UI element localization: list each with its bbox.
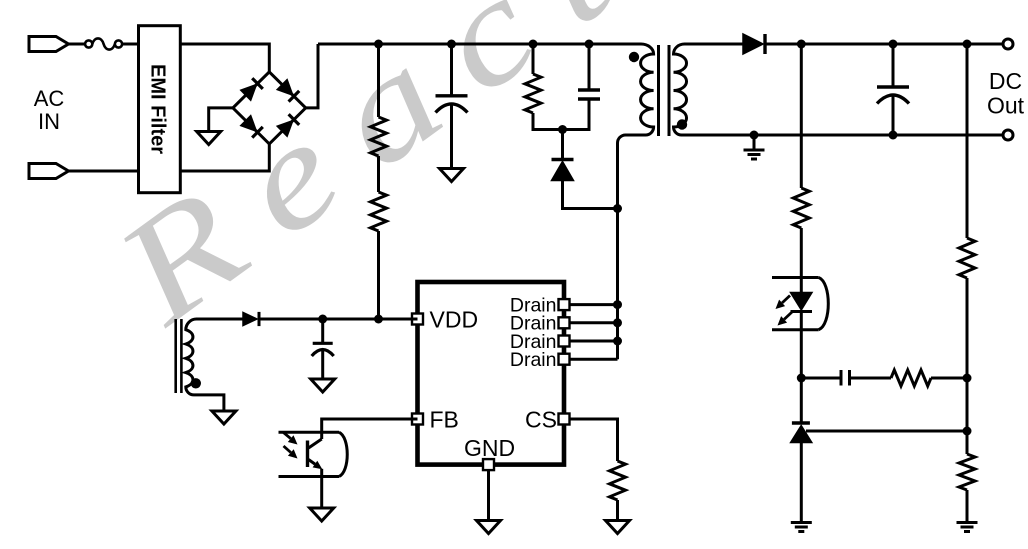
junction — [750, 131, 759, 140]
ground (secondary) — [744, 150, 765, 159]
wire — [320, 469, 323, 508]
resistor R5 (comp) — [891, 370, 931, 386]
wire — [306, 44, 318, 108]
ground — [197, 132, 221, 145]
svg-text:CS: CS — [525, 407, 557, 433]
capacitor C1 (bulk) — [436, 94, 468, 97]
capacitor C3 (output) — [877, 85, 909, 88]
resistor R7 (divider bottom) — [959, 454, 975, 490]
aux core — [176, 319, 182, 393]
wire — [122, 43, 138, 46]
light arrow — [784, 312, 792, 319]
svg-text:EMI Filter: EMI Filter — [147, 64, 169, 154]
wire — [180, 44, 269, 72]
wire — [322, 419, 418, 439]
resistor R6 (divider top) — [959, 238, 975, 278]
wire — [450, 105, 453, 169]
AC input terminal bottom — [29, 164, 69, 179]
wire — [69, 43, 86, 46]
ground (secondary) — [957, 523, 978, 532]
pin Drain2 — [559, 317, 570, 328]
emitter arrow — [309, 460, 316, 465]
wire — [377, 44, 380, 117]
svg-text:Out: Out — [987, 93, 1025, 119]
DC output terminal + — [1003, 39, 1013, 49]
junction — [889, 40, 898, 49]
wire — [564, 303, 618, 306]
wire — [588, 44, 591, 90]
resistor R2 — [371, 192, 387, 231]
transformer core — [659, 45, 670, 136]
pin Drain4 — [559, 354, 570, 365]
junction — [963, 40, 972, 49]
controller IC U1 — [418, 282, 565, 465]
wire — [532, 44, 535, 74]
wire — [564, 358, 618, 361]
wire — [892, 96, 895, 136]
wire — [377, 231, 380, 319]
junction — [585, 40, 594, 49]
optocoupler U2 transistor — [279, 432, 340, 476]
capacitor C2 (snubber) — [578, 88, 600, 91]
wire — [800, 443, 803, 523]
wire — [209, 108, 233, 132]
aux winding L1 — [186, 319, 224, 411]
TL431 U3 — [792, 421, 810, 424]
svg-text:AC: AC — [34, 86, 65, 111]
junction — [447, 40, 456, 49]
wire — [69, 170, 139, 173]
wire — [321, 319, 324, 343]
junction — [558, 125, 567, 134]
transformer T1 secondary — [674, 44, 687, 135]
wire — [753, 135, 756, 150]
wire — [563, 181, 618, 209]
wire — [561, 130, 564, 159]
wire — [682, 134, 1004, 137]
bridge rectifier BR1 — [233, 72, 306, 144]
svg-text:Drain: Drain — [510, 349, 557, 371]
light arrow — [782, 296, 790, 303]
svg-text:DC: DC — [989, 68, 1022, 94]
wire — [321, 351, 324, 380]
wire — [892, 44, 895, 87]
DC output terminal - — [1003, 130, 1013, 140]
junction — [963, 374, 972, 383]
capacitor C5 (comp) — [841, 370, 850, 386]
wire — [318, 43, 641, 46]
wire — [966, 278, 969, 454]
wire — [800, 44, 803, 188]
wire — [180, 144, 269, 171]
capacitor C4 (VDD) — [313, 342, 333, 345]
wire — [765, 43, 1003, 46]
wire — [377, 156, 380, 192]
junction — [797, 40, 806, 49]
wire — [533, 113, 563, 130]
transformer T1 primary — [618, 44, 654, 359]
junction — [374, 40, 383, 49]
aux phase dot — [191, 378, 201, 388]
pin FB — [412, 414, 423, 425]
wire — [931, 377, 967, 380]
resistor R3 (snubber) — [525, 74, 541, 113]
secondary phase dot — [677, 119, 687, 129]
pin Drain1 — [559, 299, 570, 310]
bridge diode D2 — [277, 80, 293, 96]
wire — [197, 318, 244, 321]
wire — [564, 340, 618, 343]
wire — [564, 321, 618, 324]
ground (secondary) — [791, 523, 812, 532]
svg-text:IN: IN — [38, 109, 60, 134]
ground — [311, 379, 335, 392]
svg-text:FB: FB — [430, 407, 459, 433]
light arrow — [284, 433, 291, 439]
fuse F1 — [85, 40, 92, 47]
junction — [613, 300, 622, 309]
optocoupler U2 LED — [772, 278, 819, 330]
wire — [800, 312, 803, 424]
ground — [606, 521, 630, 534]
wire — [966, 44, 969, 238]
wire — [800, 228, 803, 293]
junction — [797, 374, 806, 383]
wire — [259, 318, 418, 321]
junction — [374, 315, 383, 324]
pin VDD — [412, 314, 423, 325]
wire — [450, 44, 453, 96]
light arrow — [284, 446, 291, 453]
junction — [613, 318, 622, 327]
diode D7 (aux) — [243, 312, 257, 325]
junction — [613, 337, 622, 346]
svg-text:VDD: VDD — [430, 307, 479, 333]
primary phase dot — [629, 52, 639, 62]
junction — [613, 204, 622, 213]
wire — [851, 377, 891, 380]
bridge diode D4 — [277, 121, 293, 137]
svg-text:GND: GND — [464, 435, 515, 461]
wire — [685, 43, 744, 46]
resistor R1 — [371, 117, 387, 156]
resistor R4 (LED series) — [793, 188, 809, 228]
wire — [487, 465, 490, 521]
junction — [318, 315, 327, 324]
diode D6 (output rectifier) — [743, 34, 763, 54]
ground — [440, 169, 464, 182]
wire — [966, 490, 969, 523]
resistor R8 (current sense) — [610, 461, 626, 500]
pin GND — [483, 459, 494, 470]
AC input terminal top — [29, 37, 69, 52]
wire — [564, 419, 618, 461]
ground — [310, 508, 334, 521]
junction — [529, 40, 538, 49]
wire — [563, 99, 590, 130]
bridge diode D3 — [241, 116, 257, 132]
wire — [616, 500, 619, 521]
ground — [477, 521, 501, 534]
wire — [801, 377, 839, 380]
pin CS — [559, 414, 570, 425]
diode D5 (clamp) — [552, 158, 574, 161]
EMI filter block — [139, 26, 181, 193]
pin Drain3 — [559, 336, 570, 347]
bridge diode D1 — [241, 85, 257, 101]
junction — [889, 131, 898, 140]
ground — [212, 411, 236, 424]
wire (ref) — [806, 430, 967, 433]
junction — [963, 427, 972, 436]
